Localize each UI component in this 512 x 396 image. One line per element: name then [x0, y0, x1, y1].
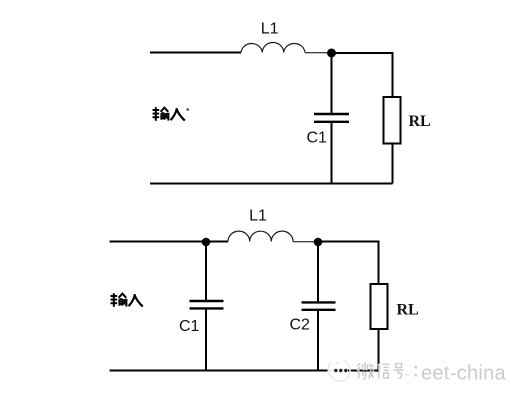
- label C1 (bottom circuit): [179, 318, 200, 335]
- wire from inductor to node (thin): [305, 52, 331, 54]
- watermark icon overlay on bottom rail: [328, 367, 349, 374]
- svg-text:C1: C1: [179, 318, 200, 335]
- wire RL bottom lead: [392, 144, 394, 184]
- wire C1 bottom plate to bottom rail: [331, 123, 333, 184]
- label L1 (bottom circuit): [249, 208, 267, 225]
- watermark icon (faint logo): [328, 361, 350, 382]
- wire top input (left segment of top rail, bottom circuit): [110, 241, 229, 243]
- watermark colon dots: [415, 366, 418, 377]
- watermark text 微信号: (drawn glyphs, faint): [357, 363, 410, 380]
- wire top input (left segment of top rail): [150, 52, 241, 54]
- wire right node to RL top corner (bottom circuit): [318, 242, 379, 285]
- wire right node down to C2 top plate (bottom circuit): [317, 242, 319, 302]
- label C1 (top circuit): [307, 130, 328, 147]
- svg-text:eet-china: eet-china: [421, 363, 507, 385]
- wire RL bottom lead (bottom circuit): [378, 329, 380, 372]
- capacitor C2 (bottom circuit): [302, 302, 336, 309]
- svg-text:C2: C2: [290, 317, 311, 334]
- wire C1 bottom plate to bottom rail (bottom circuit): [205, 309, 207, 371]
- svg-text:C1: C1: [307, 130, 328, 147]
- artifact dot after top 输入: [187, 109, 189, 111]
- node junction dot left (bottom circuit): [202, 238, 211, 247]
- watermark text eet-china: [421, 363, 507, 385]
- svg-text:L1: L1: [261, 21, 279, 38]
- capacitor C1 (bottom circuit): [190, 301, 224, 308]
- resistor RL (bottom circuit): [371, 284, 388, 329]
- wire bottom rail (bottom circuit): [110, 370, 379, 372]
- node junction dot (top circuit): [327, 49, 336, 58]
- label RL (bottom circuit): [397, 302, 419, 319]
- label C2 (bottom circuit): [290, 317, 311, 334]
- wire left node down to C1 top plate (bottom circuit): [205, 242, 207, 301]
- node junction dot right (bottom circuit): [314, 238, 323, 247]
- svg-text:RL: RL: [409, 113, 431, 130]
- inductor L1 (top circuit): [241, 42, 305, 52]
- wire C2 bottom plate to bottom rail (bottom circuit): [317, 310, 319, 370]
- wire bottom rail (top circuit): [150, 183, 393, 185]
- resistor RL (top circuit): [384, 97, 401, 144]
- label 输入 input (bottom circuit, drawn glyphs): [111, 293, 143, 307]
- capacitor C1 (top circuit): [314, 114, 349, 122]
- label RL (top circuit): [409, 113, 431, 130]
- svg-text:L1: L1: [249, 208, 267, 225]
- label 输入 input (top circuit, drawn glyphs): [153, 107, 185, 121]
- wire node to RL top corner: [332, 53, 393, 97]
- svg-text:RL: RL: [397, 302, 419, 319]
- wire node down to C1 top plate: [331, 53, 333, 114]
- inductor L1 (bottom circuit): [228, 231, 293, 241]
- label L1 (top circuit): [261, 21, 279, 38]
- wire from inductor to right node (thin): [293, 241, 318, 243]
